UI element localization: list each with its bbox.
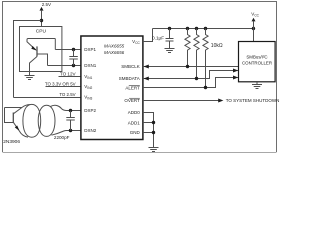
wire VIN1 (TO 12V) [59,76,81,78]
CPU box [20,27,62,72]
ground (controller) [252,82,262,89]
svg-text:VCC: VCC [251,12,259,18]
node 2.5V supply [40,2,52,11]
wire SMBDATA [143,71,238,79]
wire ALERT [143,78,238,88]
svg-text:SMBDATA: SMBDATA [119,76,140,81]
wire SMBCLK [143,66,239,68]
svg-text:VIN2: VIN2 [84,84,92,90]
capacitor C1 (DXP1-DXN1) [69,50,78,66]
resistor R3 10k [204,27,207,30]
wire twisted pair [23,104,41,137]
svg-text:10kΩ: 10kΩ [211,43,223,49]
capacitor C3 0.1uF [168,27,171,30]
figure border [3,2,277,153]
overline OVERT [129,97,140,99]
svg-text:DXP2: DXP2 [84,108,96,113]
IC U2 SMBus/I2C controller [239,42,276,82]
wire GND [143,132,154,134]
node dot DXP2 [69,109,72,112]
svg-text:ADD1: ADD1 [128,120,141,125]
svg-text:TO SYSTEM SHUTDOWN: TO SYSTEM SHUTDOWN [226,98,280,103]
svg-text:TO 3.3V OR 5V: TO 3.3V OR 5V [45,81,76,86]
overline ALERT [129,85,140,87]
node dot DXP1 [72,48,75,51]
wire VIN2 (TO 3.3V OR 5V) [46,86,81,88]
svg-text:CONTROLLER: CONTROLLER [242,60,272,65]
svg-text:2200pF: 2200pF [54,135,70,140]
svg-text:VIN1: VIN1 [84,74,92,80]
wire OVERT to system shutdown [143,100,219,102]
wire DXP2 [67,110,81,112]
svg-text:VCC: VCC [132,39,140,45]
svg-text:MAX6656: MAX6656 [104,50,125,55]
node dot DXN2 [69,129,72,132]
resistor R2 10k [195,27,198,30]
svg-text:OVERT: OVERT [124,98,140,103]
transistor Q1 (CPU thermal diode) [27,39,55,51]
wire 2.5V rail to VIN3 [14,21,42,98]
svg-text:2N3906: 2N3906 [3,139,20,145]
node junction dot 2.5V [40,19,43,22]
svg-text:GND: GND [130,130,141,135]
svg-text:ADD0: ADD0 [128,110,141,115]
wire DXN2 [67,130,81,132]
svg-text:DXN1: DXN1 [84,63,97,68]
svg-text:TO 12V: TO 12V [60,72,77,77]
svg-text:SMBus/I²C: SMBus/I²C [246,55,267,60]
ground (CPU) [25,76,35,80]
wire 2.5V vertical into CPU [41,10,43,27]
wire ADD0 [143,113,154,148]
IC U1 MAX6655/MAX6656 [81,36,143,140]
svg-text:ALERT: ALERT [125,85,140,90]
svg-text:DXN2: DXN2 [84,128,97,133]
svg-text:VIN3: VIN3 [84,95,92,101]
wire DXN1 [48,65,81,67]
transistor Q2 2N3906 [5,107,22,109]
node dot DXN1 [72,64,75,67]
svg-text:TO 2.5V: TO 2.5V [59,92,75,97]
ground (C3) [165,49,175,53]
node VCC right supply [251,12,259,31]
wire VCC pin to rail [143,29,153,42]
svg-text:0.1μF: 0.1μF [152,36,164,41]
svg-text:MAX6655: MAX6655 [104,44,125,49]
wire ADD1 [143,122,154,124]
capacitor C2 2200pF [66,111,75,131]
resistor R1 10k [186,27,189,30]
wire DXP1 [55,49,80,51]
wire VIN3 (TO 2.5V) [14,97,81,99]
svg-text:SMBCLK: SMBCLK [121,64,140,69]
svg-text:2.5V: 2.5V [42,2,51,7]
wire VCC top rail [153,28,254,30]
ground (MAX) [149,148,159,152]
svg-text:CPU: CPU [36,29,47,35]
svg-text:DXP1: DXP1 [84,47,96,52]
